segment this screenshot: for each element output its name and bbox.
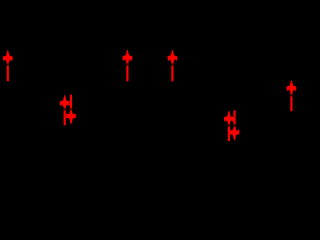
- energy level line crossing pair B: [54, 108, 82, 111]
- energy level line crossing pair E: [219, 124, 247, 127]
- electron spin-up arrow C, right degenerate orbital: [123, 49, 133, 81]
- electron spin-down arrow, paired sigma level (pair B down): [66, 95, 76, 125]
- energy level line crossing arrow D: [162, 63, 183, 66]
- energy level line crossing arrow C: [117, 63, 138, 66]
- electron spin-up arrow D, upper split orbital: [168, 49, 178, 81]
- energy level line crossing arrow A: [0, 63, 19, 66]
- electron spin-up arrow, lower paired level (pair E up): [224, 110, 234, 141]
- electron spin-up arrow, paired sigma level (pair B up): [60, 95, 70, 126]
- energy level line crossing arrow F: [281, 94, 300, 97]
- electron spin-up arrow A, left degenerate orbital: [3, 50, 13, 82]
- electron spin-down arrow, lower paired level (pair E down): [230, 110, 240, 140]
- electron spin-up arrow F, middle split orbital: [287, 80, 297, 112]
